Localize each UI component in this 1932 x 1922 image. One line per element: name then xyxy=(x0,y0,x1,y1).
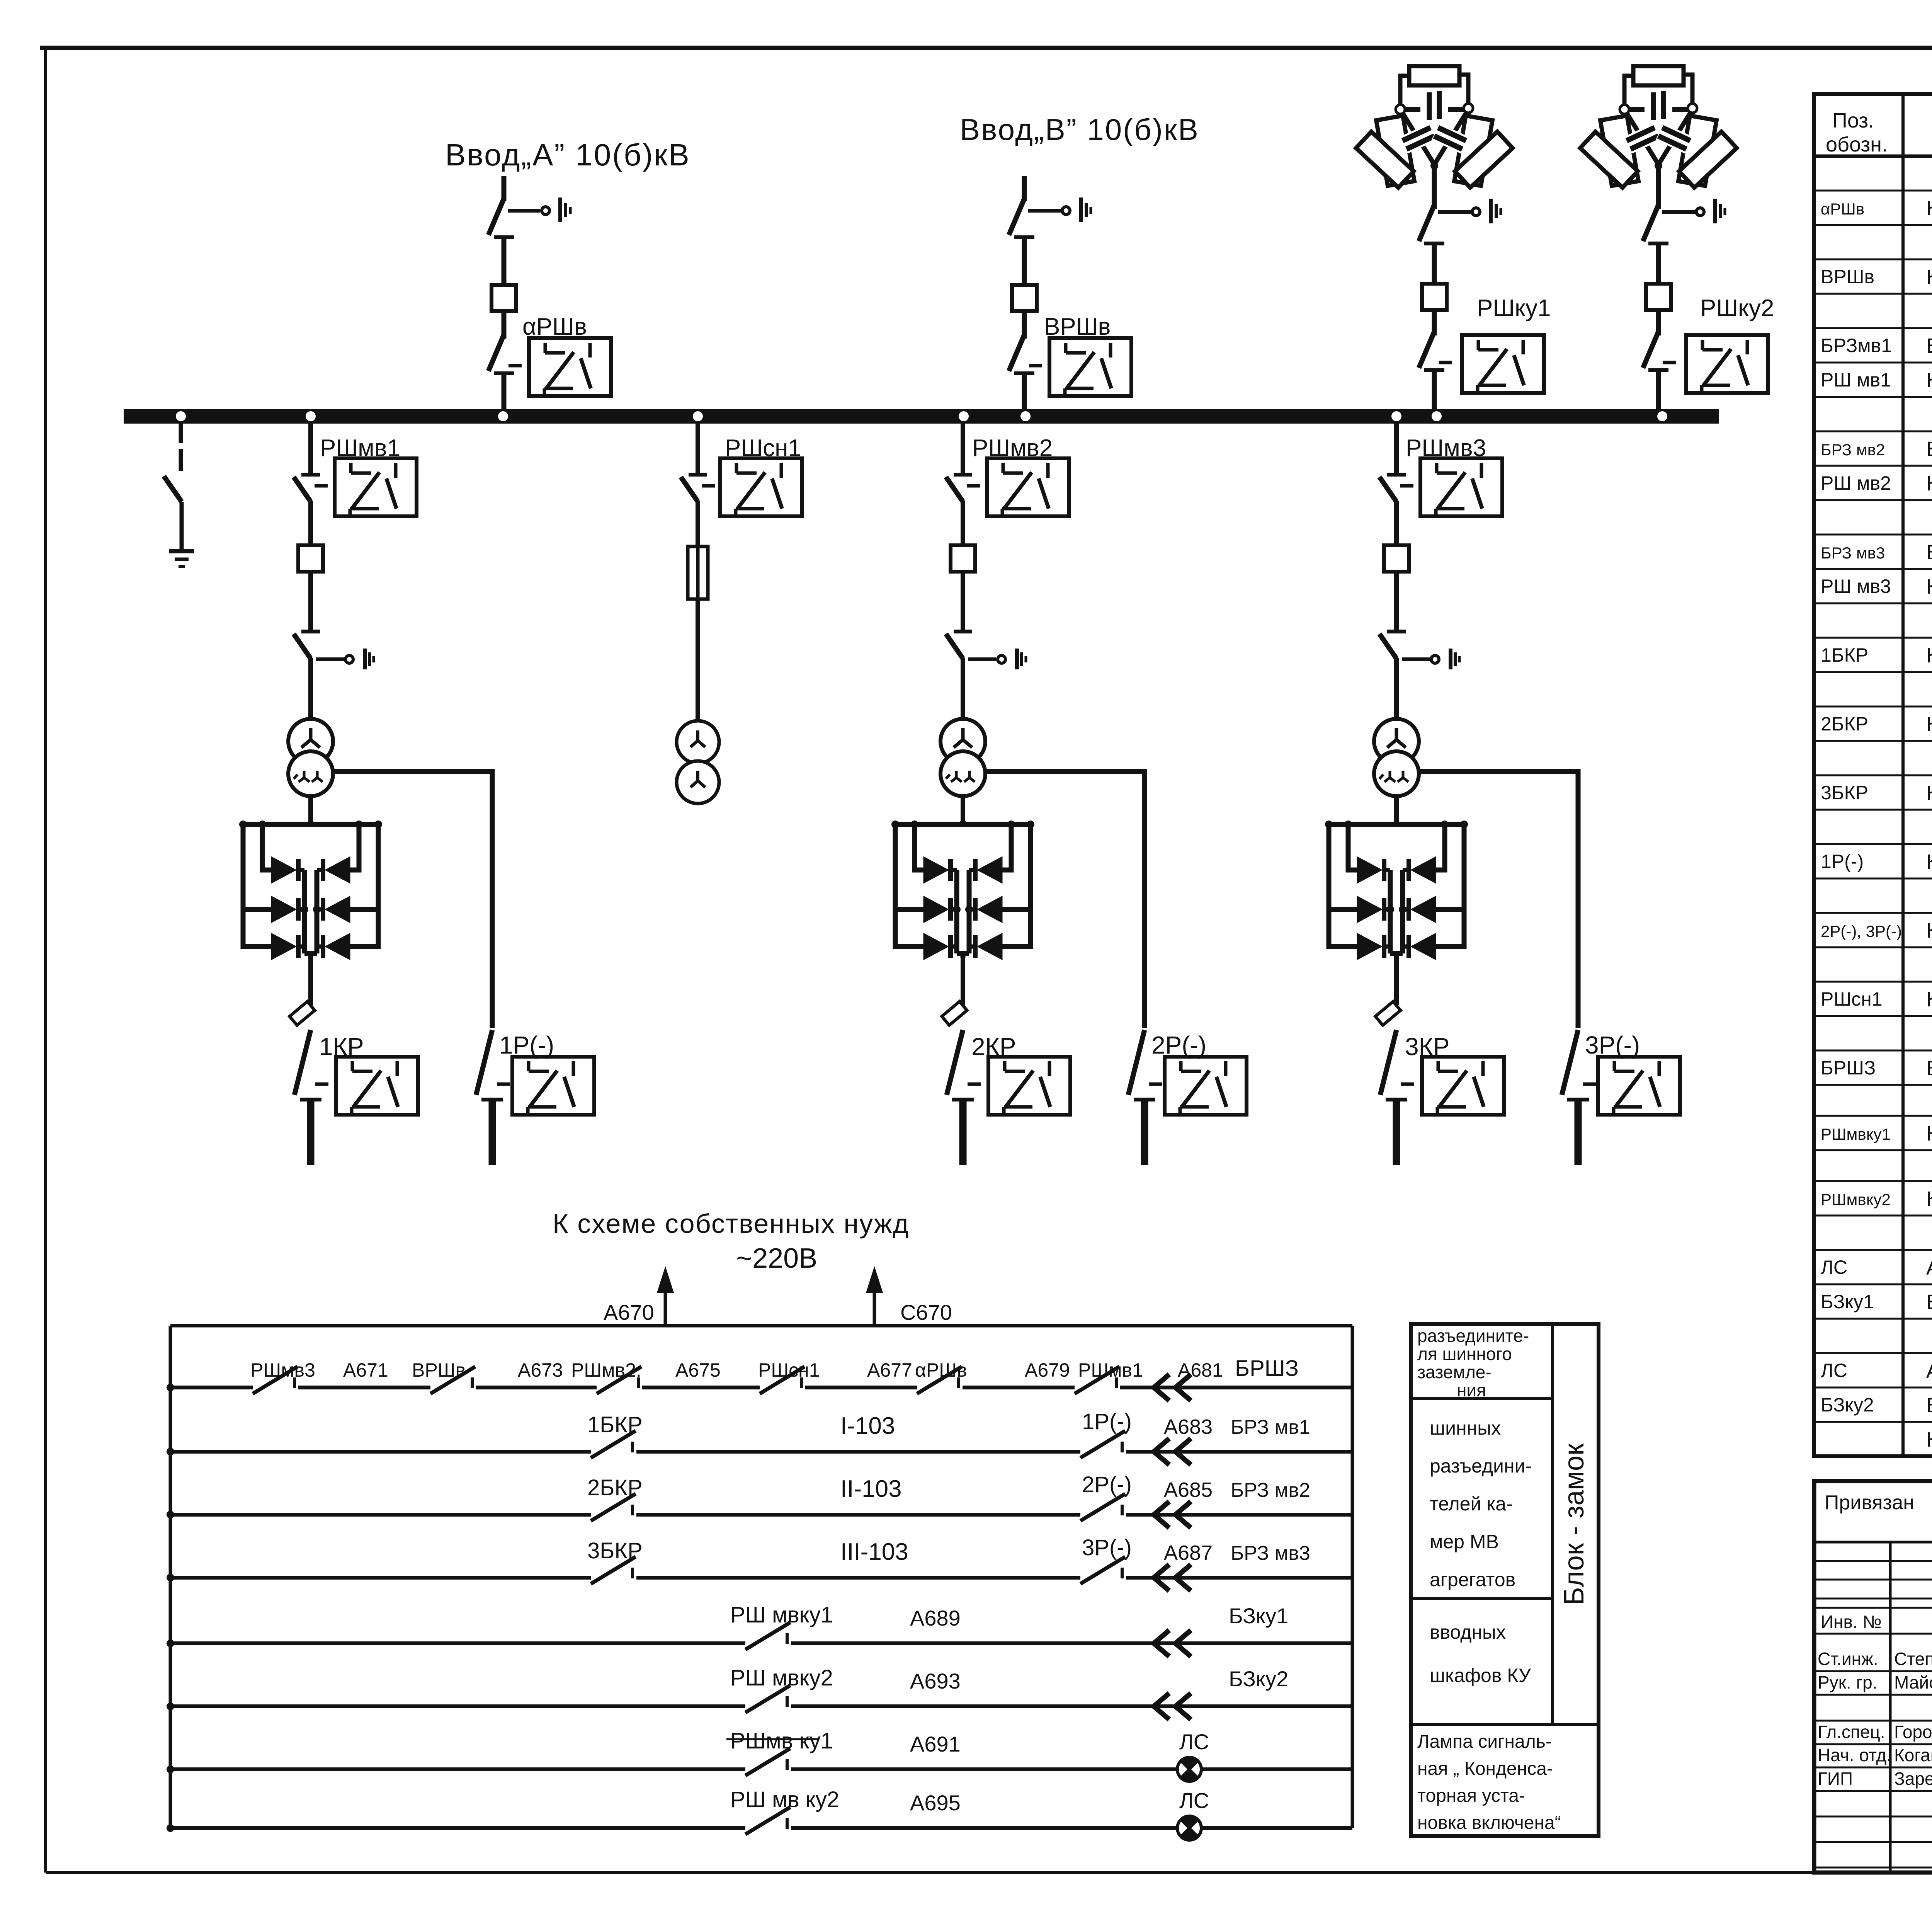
signature row ГИП Зарецкий xyxy=(1814,1790,1932,1792)
svg-text:Инв. №: Инв. № xyxy=(1821,1612,1882,1632)
svg-text:РШсн1: РШсн1 xyxy=(725,435,801,461)
svg-text:А671: А671 xyxy=(343,1359,388,1381)
contact 3БКР on rung 4 xyxy=(591,1557,636,1584)
svg-text:А687: А687 xyxy=(1164,1541,1213,1564)
svg-text:3БКР: 3БКР xyxy=(587,1538,643,1563)
svg-text:Контакты разъединителя КСА-2: Контакты разъединителя КСА-2, К: 1з+1р xyxy=(1926,988,1932,1011)
svg-text:телей ка-: телей ка- xyxy=(1430,1493,1513,1515)
interlock receiver chevron rung y=4415 xyxy=(1154,1693,1191,1719)
interlock receiver chevron rung y=3590 xyxy=(1154,1374,1191,1401)
table outer frame xyxy=(1814,94,1932,1456)
svg-text:3Р(-): 3Р(-) xyxy=(1585,1031,1640,1059)
svg-text:РШ мв3: РШ мв3 xyxy=(1821,575,1891,597)
svg-text:ВРШв: ВРШв xyxy=(1044,313,1111,340)
svg-text:ЛС: ЛС xyxy=(1179,1730,1209,1754)
svg-text:А695: А695 xyxy=(910,1791,961,1815)
svg-text:торная уста-: торная уста- xyxy=(1417,1786,1525,1806)
svg-text:А679: А679 xyxy=(1025,1359,1070,1381)
svg-text:Арматура сигнальная АС-220,: Арматура сигнальная АС-220, ~220В xyxy=(1926,1256,1932,1279)
svg-text:αРШв: αРШв xyxy=(915,1359,967,1381)
wire ladder rung y=4730 xyxy=(170,1826,1352,1830)
svg-text:РШ мв1: РШ мв1 xyxy=(1821,369,1891,391)
svg-text:1Р(-): 1Р(-) xyxy=(1821,851,1864,872)
svg-text:А677: А677 xyxy=(867,1359,912,1381)
contact РШмвку1 on rung 7 xyxy=(745,1748,791,1776)
svg-text:РШмв3: РШмв3 xyxy=(1406,435,1486,461)
svg-text:разъедини-: разъедини- xyxy=(1430,1455,1532,1477)
svg-text:~220В: ~220В xyxy=(736,1243,817,1274)
svg-text:1КР: 1КР xyxy=(319,1033,364,1061)
svg-text:Блок-замок ЗБ-1: Блок-замок ЗБ-1 xyxy=(1926,1290,1932,1314)
svg-text:ЛС: ЛС xyxy=(1179,1788,1209,1813)
svg-text:2КР: 2КР xyxy=(971,1033,1016,1061)
svg-text:Контакты разъединителя КСА-2: Контакты разъединителя КСА-2, К: 1з+1р xyxy=(1926,369,1932,392)
svg-text:Коган: Коган xyxy=(1894,1745,1932,1765)
svg-text:Ввод„А” 10(б)кВ: Ввод„А” 10(б)кВ xyxy=(445,138,690,172)
svg-text:1БКР: 1БКР xyxy=(587,1412,643,1437)
station-needs transformer feeder РШсн1 xyxy=(677,424,802,804)
disconnector feeder Ввод В (ВРШв) xyxy=(1009,176,1131,410)
svg-text:шкафов КУ: шкафов КУ xyxy=(1430,1665,1531,1686)
disconnector feeder Ввод А (АРШв) xyxy=(488,176,611,410)
svg-text:ЛС: ЛС xyxy=(1821,1256,1847,1278)
svg-text:αРШв: αРШв xyxy=(1821,200,1864,218)
interlock receiver chevron rung y=3919 xyxy=(1154,1502,1191,1528)
contact 1Р(-) on rung 2 xyxy=(1080,1431,1126,1458)
signal lamp ЛС rung 8 xyxy=(1177,1816,1201,1840)
svg-text:Контакты разъединителя КСА-4: Контакты разъединителя КСА-4, К: 2з+2р xyxy=(1926,781,1932,805)
contact on rung 1 x=1174 xyxy=(430,1367,476,1394)
contact 2Р(-) on rung 3 xyxy=(1080,1494,1126,1521)
svg-text:Блок - замок: Блок - замок xyxy=(1559,1443,1590,1605)
svg-text:БРШЗ: БРШЗ xyxy=(1235,1356,1299,1381)
signature row Ст.инж. Степочкина xyxy=(1814,1670,1932,1672)
svg-text:Контакты разъединителя КСА-2: Контакты разъединителя КСА-2, К: 1з+1р xyxy=(1926,575,1932,598)
svg-text:2БКР: 2БКР xyxy=(1821,713,1868,735)
bus node x=3718 xyxy=(1432,411,1442,421)
interlock receiver chevron rung y=4082 xyxy=(1154,1564,1191,1591)
wire ladder rung y=4252 xyxy=(170,1641,1352,1645)
contact 3Р(-) on rung 4 xyxy=(1080,1557,1126,1584)
contact on rung 1 x=2433 xyxy=(917,1367,963,1394)
signature table frame xyxy=(1814,1481,1932,1873)
wire ladder rung y=3919 xyxy=(170,1513,1352,1517)
svg-text:РШ мвку2: РШ мвку2 xyxy=(730,1665,833,1690)
svg-text:Гороховский: Гороховский xyxy=(1894,1722,1932,1742)
svg-text:Контакты разъединителя КСА-2: Контакты разъединителя КСА-2 , К: 1з+1р xyxy=(1926,472,1932,495)
svg-text:Лампа сигналь-: Лампа сигналь- xyxy=(1417,1731,1552,1752)
svg-text:А685: А685 xyxy=(1164,1478,1213,1502)
svg-text:БРЗ мв2: БРЗ мв2 xyxy=(1231,1479,1310,1502)
svg-text:Блок-замок ЭМБЗ, ~220В: Блок-замок ЭМБЗ, ~220В xyxy=(1926,334,1932,358)
legend box frame xyxy=(1411,1324,1599,1836)
svg-text:А670: А670 xyxy=(604,1300,654,1324)
contact on rung 1 x=714 xyxy=(253,1367,298,1394)
svg-text:заземле-: заземле- xyxy=(1417,1362,1492,1382)
svg-text:БРЗмв1: БРЗмв1 xyxy=(1821,335,1892,356)
svg-text:БЗку2: БЗку2 xyxy=(1821,1394,1874,1416)
svg-text:РШку1: РШку1 xyxy=(1477,295,1551,322)
wire ladder left rail xyxy=(169,1326,172,1828)
svg-text:Контакты разъединителя КСА-2: Контакты разъединителя КСА-2 , К: 1з+1р xyxy=(1926,266,1932,289)
svg-text:мер МВ: мер МВ xyxy=(1430,1531,1499,1553)
contact РШмвку1 on rung 5 xyxy=(745,1622,791,1650)
svg-text:вводных: вводных xyxy=(1430,1621,1506,1643)
svg-text:А673: А673 xyxy=(518,1359,563,1381)
svg-text:Контакты разъединителя КСА-4: Контакты разъединителя КСА-4, К: 2з+2р xyxy=(1926,644,1932,667)
svg-text:РШмвку1: РШмвку1 xyxy=(1821,1125,1891,1143)
contact 2БКР on rung 3 xyxy=(591,1494,636,1521)
bus node x=3614 xyxy=(1391,411,1401,421)
svg-text:РШмв3: РШмв3 xyxy=(250,1359,315,1381)
svg-text:РШ мв2: РШ мв2 xyxy=(1821,472,1891,494)
capacitor bank unit 1 with disconnector РШку1 xyxy=(1356,66,1544,410)
svg-text:К схеме собственных нужд: К схеме собственных нужд xyxy=(553,1209,909,1239)
svg-text:αРШв: αРШв xyxy=(522,313,587,340)
svg-text:2Р(-), 3Р(-): 2Р(-), 3Р(-) xyxy=(1821,922,1902,940)
svg-text:РШсн1: РШсн1 xyxy=(1821,988,1883,1010)
wire ladder top rail xyxy=(170,1324,1352,1328)
wire ladder rung y=4578 xyxy=(170,1767,1352,1771)
svg-text:3БКР: 3БКР xyxy=(1821,782,1868,804)
wire ladder rung y=3756 xyxy=(170,1450,1352,1454)
svg-text:БРЗ мв1: БРЗ мв1 xyxy=(1231,1416,1310,1439)
svg-text:Блок-замок ЗБ-1: Блок-замок ЗБ-1 xyxy=(1926,1394,1932,1417)
bus node x=468 xyxy=(176,411,186,421)
svg-text:Контакты разъединителя КСА-4: Контакты разъединителя КСА-4, К: 2з+2р xyxy=(1926,713,1932,736)
svg-text:Контакты разъединителя КСА-2: Контакты разъединителя КСА-2, К: 1з+1р xyxy=(1926,1187,1932,1210)
svg-text:А683: А683 xyxy=(1164,1415,1213,1439)
svg-text:БЗку2: БЗку2 xyxy=(1229,1667,1288,1691)
svg-text:БЗку1: БЗку1 xyxy=(1821,1291,1874,1313)
svg-text:1БКР: 1БКР xyxy=(1821,644,1868,666)
wire ladder rung y=3590 xyxy=(170,1386,1352,1389)
signature row Гл.спец. Гороховский xyxy=(1814,1743,1932,1745)
svg-text:Нач. отд.: Нач. отд. xyxy=(1818,1745,1891,1765)
svg-text:РШмв ку1: РШмв ку1 xyxy=(730,1728,833,1753)
svg-text:Поз.: Поз. xyxy=(1832,109,1874,132)
bus node x=1302 xyxy=(498,411,508,421)
contact 1БКР on rung 2 xyxy=(591,1431,636,1458)
svg-text:II-103: II-103 xyxy=(840,1476,902,1502)
svg-text:Гл.спец.: Гл.спец. xyxy=(1818,1722,1885,1742)
svg-text:новка включена“: новка включена“ xyxy=(1417,1813,1561,1833)
svg-text:РШмв2: РШмв2 xyxy=(972,435,1053,461)
contact on rung 1 x=2841 xyxy=(1075,1367,1120,1394)
drawing frame border xyxy=(40,46,1932,50)
wire ladder rung y=4415 xyxy=(170,1704,1352,1708)
svg-text:Зарецкий: Зарецкий xyxy=(1894,1769,1932,1789)
bus node x=2654 xyxy=(1020,411,1031,421)
svg-text:1Р(-): 1Р(-) xyxy=(499,1031,554,1059)
svg-text:Ключ переносной электромагни: Ключ переносной электромагнитный КЭЗ-1 xyxy=(1926,1428,1932,1451)
svg-text:БРШЗ: БРШЗ xyxy=(1821,1057,1876,1079)
svg-text:ная „ Конденса-: ная „ Конденса- xyxy=(1417,1759,1553,1779)
svg-text:Блок-замок ЭМБЗ , ~220В: Блок-замок ЭМБЗ , ~220В xyxy=(1926,1057,1932,1080)
wire ladder right rail xyxy=(1351,1326,1354,1828)
wire supply arrow А670 xyxy=(664,1283,667,1326)
svg-text:I-103: I-103 xyxy=(840,1413,895,1439)
svg-text:обозн.: обозн. xyxy=(1826,133,1888,156)
svg-text:ГИП: ГИП xyxy=(1818,1769,1853,1789)
svg-text:Блок-замок ЭМБЗ, ~220В: Блок-замок ЭМБЗ, ~220В xyxy=(1926,541,1932,564)
svg-text:3Р(-): 3Р(-) xyxy=(1082,1535,1132,1560)
bus node x=1806 xyxy=(693,411,703,421)
svg-text:С670: С670 xyxy=(900,1300,952,1324)
svg-text:А693: А693 xyxy=(910,1669,961,1693)
signature row Нач. отд. Коган xyxy=(1814,1767,1932,1769)
svg-text:Контакты разъединителя КСА-2: Контакты разъединителя КСА-2, К: 1з+1р xyxy=(1926,850,1932,873)
svg-text:РШмв1: РШмв1 xyxy=(1078,1359,1143,1381)
svg-text:БРЗ мв3: БРЗ мв3 xyxy=(1821,544,1885,562)
main 10kV bus bar xyxy=(124,409,1719,424)
rectifier unit 3: disconnector РШмв3, fuse, transformer, diode bridge, switch 3КР and 3Р(-) xyxy=(1325,424,1680,1165)
bus node x=4302 xyxy=(1657,411,1667,421)
correction strike over РШмвку1 label xyxy=(726,1738,819,1740)
svg-text:БРЗ мв3: БРЗ мв3 xyxy=(1231,1542,1310,1564)
svg-text:Ст.инж.: Ст.инж. xyxy=(1818,1649,1878,1669)
capacitor bank unit 2 with disconnector РШку2 xyxy=(1580,66,1768,410)
signal lamp ЛС rung 7 xyxy=(1177,1757,1201,1781)
svg-text:Рук. гр.: Рук. гр. xyxy=(1818,1672,1878,1692)
rectifier unit 1: disconnector РШмв1, fuse, transformer, diode bridge, switch 1КР and 1Р(-) xyxy=(239,424,594,1165)
svg-text:III-103: III-103 xyxy=(840,1539,908,1565)
svg-text:Контакты разъединителя КСА-2: Контакты разъединителя КСА-2 , К: 1з+1р xyxy=(1926,197,1932,220)
wire supply arrow С670 xyxy=(873,1283,876,1326)
signature row Рук. гр. Майстровая xyxy=(1814,1694,1932,1696)
svg-text:2Р(-): 2Р(-) xyxy=(1151,1031,1206,1059)
interlock receiver chevron rung y=4252 xyxy=(1154,1630,1191,1656)
svg-text:РШмв1: РШмв1 xyxy=(320,435,400,461)
svg-text:Контакты разъединителя КСА-: Контакты разъединителя КСА-2, К: 1з+1р xyxy=(1926,1122,1932,1145)
bus earthing switch xyxy=(164,424,194,567)
interlock receiver chevron rung y=3756 xyxy=(1154,1439,1191,1465)
svg-text:РШку2: РШку2 xyxy=(1700,295,1774,322)
svg-text:Арматура сигнальная АС-220,: Арматура сигнальная АС-220, ~220В xyxy=(1926,1359,1932,1382)
contact РШ мв ку2 on rung 8 xyxy=(745,1807,791,1834)
svg-text:Майстровая: Майстровая xyxy=(1894,1672,1932,1692)
svg-text:ВРШв: ВРШв xyxy=(1821,266,1874,288)
svg-text:РШмв2.: РШмв2. xyxy=(571,1359,641,1381)
svg-text:1Р(-): 1Р(-) xyxy=(1082,1409,1132,1434)
rectifier unit 2: disconnector РШмв2, fuse, transformer, diode bridge, switch 2КР and 2Р(-) xyxy=(891,424,1247,1165)
contact on rung 1 x=2026 xyxy=(760,1367,805,1394)
svg-text:2Р(-): 2Р(-) xyxy=(1082,1472,1132,1497)
svg-text:РШсн1: РШсн1 xyxy=(758,1359,820,1381)
svg-text:БРЗ мв2: БРЗ мв2 xyxy=(1821,441,1885,459)
svg-text:ЛС: ЛС xyxy=(1821,1360,1847,1381)
svg-text:А691: А691 xyxy=(910,1732,961,1756)
svg-text:Блок-замок ЭМБЗ, ~220: Блок-замок ЭМБЗ, ~220В xyxy=(1926,438,1932,461)
svg-text:РШмвку2: РШмвку2 xyxy=(1821,1190,1891,1209)
svg-text:А675: А675 xyxy=(675,1359,721,1381)
bus node x=804 xyxy=(306,411,316,421)
svg-text:разъедините-: разъедините- xyxy=(1417,1326,1529,1346)
bus node x=2494 xyxy=(959,411,969,421)
svg-text:БЗку1: БЗку1 xyxy=(1229,1604,1288,1628)
svg-text:Контакты разъединителя КСА-2: Контакты разъединителя КСА-2, К: 1з+1р xyxy=(1926,919,1932,942)
svg-text:ния: ния xyxy=(1457,1380,1486,1400)
signature row xyxy=(1814,1720,1932,1722)
wire ladder rung y=4082 xyxy=(170,1576,1352,1580)
svg-text:ВРШв: ВРШв xyxy=(412,1359,466,1381)
svg-text:ля шинного: ля шинного xyxy=(1417,1344,1512,1364)
contact on rung 1 x=1604 xyxy=(597,1367,642,1394)
svg-text:2БКР: 2БКР xyxy=(587,1475,643,1500)
table column lines xyxy=(1903,94,1932,1456)
svg-text:РШ мв ку2: РШ мв ку2 xyxy=(730,1787,839,1812)
svg-text:Ввод„В” 10(б)кВ: Ввод„В” 10(б)кВ xyxy=(960,112,1199,146)
contact РШмвку2 on rung 6 xyxy=(745,1685,791,1713)
svg-text:Привязан: Привязан xyxy=(1825,1491,1914,1514)
svg-text:А689: А689 xyxy=(910,1606,961,1630)
svg-text:шинных: шинных xyxy=(1430,1417,1501,1439)
table header row xyxy=(1814,155,1932,158)
svg-text:3КР: 3КР xyxy=(1405,1033,1450,1061)
svg-text:Степочкина: Степочкина xyxy=(1894,1649,1932,1669)
svg-text:агрегатов: агрегатов xyxy=(1430,1569,1515,1590)
svg-text:РШ мвку1: РШ мвку1 xyxy=(730,1602,833,1627)
